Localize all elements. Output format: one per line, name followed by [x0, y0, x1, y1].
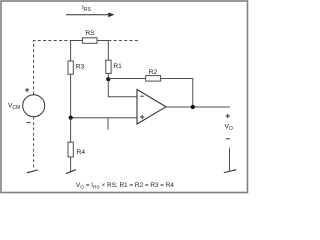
wire dashed right of R1 top	[108, 40, 139, 42]
ground R4	[66, 170, 76, 174]
current arrow IRS	[66, 12, 115, 17]
wire RS left lead	[71, 40, 83, 42]
label output polarity +	[226, 114, 230, 118]
op-amp U1	[137, 90, 166, 125]
wire R1 top lead	[107, 41, 109, 61]
wire R2 to output node	[161, 79, 193, 108]
wire R3 top lead	[70, 41, 72, 62]
voltage source VCM	[23, 95, 45, 117]
svg-text:R3: R3	[76, 64, 85, 71]
wire op-amp output	[166, 106, 230, 108]
wire RS right lead	[97, 40, 108, 42]
VCM polarity -	[26, 122, 30, 124]
svg-text:R4: R4	[77, 149, 86, 156]
wire R1 bottom lead	[107, 73, 109, 79]
wire VO ground lead	[229, 148, 231, 171]
wire dashed current path VCM to RS	[34, 41, 71, 95]
resistor R3	[68, 61, 73, 74]
svg-text:R2: R2	[149, 69, 158, 76]
node junction R1 / R2 / inverting input	[106, 77, 110, 81]
wire R4 top lead	[70, 118, 72, 143]
node output junction	[191, 105, 195, 109]
ground VCM	[27, 170, 38, 173]
resistor R2	[146, 76, 161, 82]
label output polarity -	[226, 138, 230, 140]
wire noninverting input	[71, 117, 137, 119]
resistor R1	[106, 60, 111, 73]
VCM polarity +	[25, 88, 29, 92]
svg-text:R1: R1	[113, 63, 122, 70]
wire junction to R2	[108, 78, 145, 80]
node junction R3 / R4 / noninverting input	[69, 116, 73, 120]
svg-text:RS: RS	[85, 30, 95, 37]
resistor R4	[68, 142, 73, 157]
ground VO	[224, 170, 237, 173]
wire dashed VCM bottom	[33, 117, 35, 170]
wire R4 bottom lead	[70, 157, 72, 172]
resistor RS	[82, 38, 97, 44]
wire stub below noninverting input	[107, 118, 109, 130]
wire inverting input	[108, 79, 137, 96]
wire R3 bottom lead	[70, 74, 72, 118]
